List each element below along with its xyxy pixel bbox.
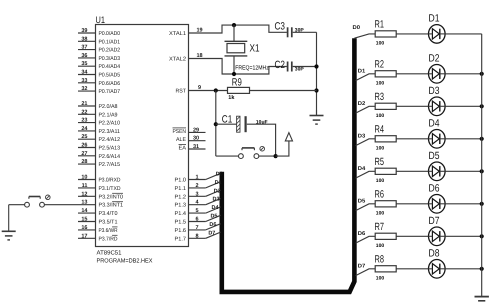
junction rail row 4 [480, 137, 484, 141]
svg-text:14: 14 [81, 208, 88, 214]
svg-text:10: 10 [81, 175, 87, 181]
net label D4 (right) [358, 166, 367, 172]
junction button/VCC node [274, 154, 278, 158]
svg-text:FREQ=12MHz: FREQ=12MHz [235, 65, 268, 72]
svg-text:100: 100 [376, 113, 385, 119]
svg-text:D4: D4 [429, 118, 440, 130]
wire bus to R6 [356, 204, 376, 211]
svg-text:U1: U1 [96, 15, 106, 26]
D8 reference label [429, 248, 440, 260]
svg-text:P1.2: P1.2 [175, 194, 187, 200]
svg-text:21: 21 [81, 101, 87, 107]
svg-text:P0.7/AD7: P0.7/AD7 [99, 89, 121, 95]
LED D6 [429, 195, 446, 214]
wire D1 to cathode rail [445, 33, 482, 35]
U1 pin 15 (P3.5/T1) [78, 217, 118, 226]
svg-text:17: 17 [81, 233, 87, 239]
LED D1 [429, 25, 446, 44]
U1 pin 13 (P3.3/INT1) [81, 200, 123, 209]
svg-text:11: 11 [82, 183, 88, 189]
wire R8 to D8 [396, 268, 428, 270]
U1 pin 24 (P2.3/A11) [78, 126, 120, 135]
svg-text:D7: D7 [429, 215, 440, 227]
svg-text:D6: D6 [429, 183, 440, 195]
resistor R4 [375, 136, 396, 142]
C3 value 30P [295, 28, 305, 34]
wire R4 to D4 [396, 138, 428, 140]
svg-text:D0: D0 [216, 172, 223, 178]
U1 pin 39 (P0.0/AD0) [78, 28, 120, 37]
svg-text:R1: R1 [375, 19, 385, 31]
svg-text:37: 37 [81, 45, 87, 51]
svg-text:D8: D8 [429, 248, 440, 260]
svg-text:C2: C2 [275, 59, 286, 71]
svg-text:P0.5/AD5: P0.5/AD5 [99, 73, 121, 79]
junction rail row 7 [480, 234, 484, 238]
svg-text:PROGRAM=DB2.HEX: PROGRAM=DB2.HEX [97, 258, 153, 265]
svg-text:100: 100 [376, 145, 385, 151]
wire to C1 [216, 123, 237, 125]
svg-text:D3: D3 [213, 197, 220, 203]
net label D2 (right) [358, 101, 366, 107]
R8 reference label [375, 254, 385, 266]
U1 pin 38 (P0.1/AD1) [78, 36, 120, 45]
wire oscillator ground rail [316, 32, 318, 115]
svg-text:P1.4: P1.4 [175, 211, 187, 217]
svg-text:D7: D7 [358, 264, 366, 270]
U1 pin 18 (XTAL2) [169, 53, 203, 63]
U1 property PROGRAM=DB2.HEX [97, 258, 153, 265]
svg-text:P2.4/A12: P2.4/A12 [99, 137, 121, 143]
C2 reference label [275, 59, 286, 71]
svg-text:D2: D2 [214, 188, 221, 194]
svg-text:16: 16 [81, 225, 87, 231]
U1 pin 10 (P3.0/RXD) [78, 175, 121, 184]
U1 pin 17 (P3.7/RD) [78, 233, 118, 242]
U1 pin 4 (P1.3) [175, 200, 206, 209]
U1 pin 14 (P3.4/T0) [78, 208, 118, 217]
svg-text:15: 15 [81, 217, 87, 223]
svg-text:8: 8 [196, 233, 199, 239]
svg-text:P3.6/WR: P3.6/WR [99, 228, 118, 234]
resistor R7 [375, 233, 396, 239]
svg-text:P0.3/AD3: P0.3/AD3 [99, 56, 121, 62]
U1 pin 3 (P1.2) [175, 191, 206, 200]
wire bus to R4 [356, 139, 376, 146]
LED D2 [429, 65, 446, 84]
wire P1.0 to bus [206, 173, 221, 179]
svg-text:P2.5/A13: P2.5/A13 [99, 146, 121, 152]
U1 pin 35 (P0.4/AD4) [78, 61, 120, 70]
resistor R9 [228, 87, 250, 93]
svg-text:D5: D5 [358, 199, 366, 205]
net label D6 (right) [358, 231, 366, 237]
svg-text:R5: R5 [375, 156, 385, 168]
LED D5 [429, 162, 446, 181]
U1 pin 32 (P0.7/AD7) [78, 86, 120, 95]
C1 reference label [222, 114, 233, 126]
wire D2 to cathode rail [445, 73, 482, 75]
svg-text:29: 29 [193, 127, 199, 133]
U1 pin 30 (ALE) [176, 136, 206, 144]
R9 reference label [232, 77, 242, 89]
svg-text:39: 39 [81, 28, 87, 34]
svg-text:P2.1/A9: P2.1/A9 [99, 112, 118, 118]
wire R5 to D5 [396, 170, 428, 172]
net label D7 (left) [208, 230, 215, 236]
capacitor C3 [288, 27, 292, 37]
capacitor C1 (polarized) [237, 116, 246, 132]
svg-text:100: 100 [376, 178, 385, 184]
svg-text:P0.1/AD1: P0.1/AD1 [99, 39, 121, 45]
ground (oscillator rail) [310, 110, 324, 124]
junction rail row 3 [480, 104, 484, 108]
wire R1 to D1 [396, 33, 428, 35]
wire P1.1 to bus [206, 182, 221, 188]
svg-text:30P: 30P [295, 66, 305, 72]
wire to VCC [276, 141, 289, 156]
R9 value 1k [228, 95, 235, 101]
wire RST node down to button [215, 91, 217, 157]
resistor R6 [375, 201, 396, 207]
ground (INT1 button) [2, 205, 16, 240]
wire R9 to rail [250, 90, 317, 92]
svg-text:12: 12 [81, 191, 87, 197]
svg-text:P2.2/A10: P2.2/A10 [99, 121, 121, 127]
wire button to U1 pin 13 [44, 204, 95, 206]
U1 pin 29 (PSEN) [173, 127, 206, 135]
svg-text:D1: D1 [429, 13, 440, 25]
LED D7 [429, 227, 446, 246]
crystal X1 [225, 41, 248, 56]
resistor R3 [375, 103, 396, 109]
net label D5 (right) [358, 199, 366, 205]
net label D1 (left) [215, 180, 222, 186]
op-amp U1 body (AT89C51 microcontroller) [96, 25, 189, 247]
svg-text:R2: R2 [375, 59, 385, 71]
D4 reference label [429, 118, 440, 130]
svg-text:P3.3/INT1: P3.3/INT1 [99, 203, 124, 209]
svg-text:P1.0: P1.0 [175, 178, 187, 184]
svg-text:P1.7: P1.7 [175, 236, 187, 242]
R5 reference label [375, 156, 385, 168]
svg-text:22: 22 [81, 109, 87, 115]
R6 value 100 [376, 210, 385, 216]
svg-text:P2.7/A15: P2.7/A15 [99, 162, 121, 168]
net label D4 (left) [212, 205, 220, 211]
R1 reference label [375, 19, 385, 31]
wire ground to button [9, 204, 25, 206]
wire R2 to D2 [396, 73, 428, 75]
svg-text:28: 28 [81, 159, 87, 165]
wire C3 to rail [293, 31, 317, 33]
net label D2 (left) [214, 188, 221, 194]
U1 pin 16 (P3.6/WR) [78, 225, 118, 234]
X1 reference label [250, 43, 260, 55]
svg-text:100: 100 [376, 243, 385, 249]
U1 pin 11 (P3.1/TXD) [78, 183, 121, 192]
resistor R8 [375, 266, 396, 272]
junction R9/rail [314, 88, 318, 92]
wire R7 to D7 [396, 235, 428, 237]
junction crystal bottom node [232, 72, 236, 76]
svg-text:EA: EA [179, 146, 187, 152]
D7 reference label [429, 215, 440, 227]
U1 pin 1 (P1.0) [175, 175, 206, 184]
R4 value 100 [376, 145, 385, 151]
net label D7 (right) [358, 264, 366, 270]
net label D0 (right) [353, 25, 361, 31]
svg-text:C1: C1 [222, 114, 233, 126]
ground (cathode rail) [475, 297, 489, 301]
svg-text:100: 100 [376, 210, 385, 216]
svg-text:7: 7 [196, 225, 199, 231]
wire bus to R8 [356, 269, 376, 276]
svg-text:31: 31 [193, 144, 199, 150]
wire bus to R1 [354, 34, 375, 38]
net label D3 (right) [358, 134, 366, 140]
net label D1 (right) [358, 69, 366, 75]
svg-text:D7: D7 [208, 230, 215, 236]
wire D7 to cathode rail [445, 235, 482, 237]
net label D5 (left) [210, 214, 217, 220]
wire bus to R3 [356, 106, 376, 113]
svg-text:100: 100 [376, 275, 385, 281]
svg-text:P3.0/RXD: P3.0/RXD [99, 178, 121, 184]
svg-text:P3.4/T0: P3.4/T0 [99, 211, 118, 217]
wire D8 to cathode rail [445, 268, 482, 270]
U1 pin 19 (XTAL1) [169, 28, 203, 38]
wire P1.4 to bus [206, 207, 221, 213]
junction rail row 8 [480, 267, 484, 271]
X1 value FREQ=12MHz [235, 65, 268, 72]
svg-text:C3: C3 [275, 21, 286, 33]
power VCC arrow [285, 133, 292, 141]
wire R6 to D6 [396, 203, 428, 205]
D6 reference label [429, 183, 440, 195]
svg-text:P2.3/A11: P2.3/A11 [99, 129, 121, 135]
svg-text:2: 2 [196, 183, 199, 189]
wire bus to R2 [356, 74, 376, 81]
svg-text:D2: D2 [429, 53, 440, 65]
D1 reference label [429, 13, 440, 25]
junction C1 left node [214, 122, 218, 126]
R4 reference label [375, 124, 385, 136]
svg-text:P3.5/T1: P3.5/T1 [99, 220, 118, 226]
R6 reference label [375, 189, 385, 201]
wire P1.5 to bus [206, 215, 221, 221]
U1 pin 9 (RST) [176, 85, 202, 95]
wire R3 to D3 [396, 105, 428, 107]
svg-text:100: 100 [376, 41, 385, 47]
junction rail row 2 [480, 72, 484, 76]
svg-text:P1.3: P1.3 [175, 203, 187, 209]
R3 reference label [375, 91, 385, 103]
U1 pin 21 (P2.0/A8) [78, 101, 118, 110]
svg-text:R9: R9 [232, 77, 242, 89]
wire XTAL2 to crystal/C2 net [189, 59, 287, 75]
svg-text:P0.6/AD6: P0.6/AD6 [99, 81, 121, 87]
svg-text:P1.5: P1.5 [175, 220, 187, 226]
svg-text:D6: D6 [209, 222, 216, 228]
svg-text:26: 26 [81, 143, 87, 149]
U1 pin 33 (P0.6/AD6) [78, 78, 120, 87]
wire P1.3 to bus [206, 199, 221, 205]
svg-text:32: 32 [81, 86, 87, 92]
svg-text:P1.1: P1.1 [175, 186, 187, 192]
U1 pin 37 (P0.2/AD2) [78, 45, 120, 54]
R5 value 100 [376, 178, 385, 184]
R2 value 100 [376, 80, 385, 86]
svg-text:1k: 1k [228, 95, 235, 101]
svg-text:33: 33 [81, 78, 87, 84]
svg-text:3: 3 [196, 191, 199, 197]
junction C2/rail [314, 64, 318, 68]
svg-text:5: 5 [196, 208, 199, 214]
svg-text:D1: D1 [215, 180, 222, 186]
svg-text:R8: R8 [375, 254, 385, 266]
wire RST to R9 [189, 90, 228, 92]
U1 pin 34 (P0.5/AD5) [78, 70, 120, 79]
svg-text:P0.0/AD0: P0.0/AD0 [99, 31, 121, 37]
U1 pin 26 (P2.5/A13) [78, 143, 120, 152]
svg-text:D5: D5 [210, 214, 217, 220]
U1 pin 7 (P1.6) [175, 225, 206, 234]
svg-text:D3: D3 [358, 134, 366, 140]
svg-text:RST: RST [176, 89, 187, 95]
svg-text:D0: D0 [353, 25, 361, 31]
wire cathode rail [481, 34, 483, 297]
svg-text:P0.4/AD4: P0.4/AD4 [99, 64, 121, 70]
wire P1.7 to bus [206, 232, 221, 238]
svg-text:100: 100 [376, 80, 385, 86]
svg-text:AT89C51: AT89C51 [97, 250, 123, 257]
svg-text:35: 35 [81, 61, 87, 67]
resistor R5 [375, 168, 396, 174]
U1 pin 31 (EA) [179, 144, 206, 152]
D2 reference label [429, 53, 440, 65]
wire D6 to cathode rail [445, 203, 482, 205]
svg-text:D6: D6 [358, 231, 366, 237]
svg-text:P3.7/RD: P3.7/RD [99, 236, 118, 242]
svg-text:38: 38 [81, 36, 87, 42]
svg-text:P3.2/INT0: P3.2/INT0 [99, 194, 124, 200]
wire bus to R7 [356, 236, 376, 243]
junction rail row 6 [480, 202, 484, 206]
push button RESET [216, 146, 276, 158]
wire D3 to cathode rail [445, 105, 482, 107]
svg-text:ALE: ALE [176, 137, 186, 143]
svg-text:30: 30 [193, 136, 199, 142]
U1 pin 2 (P1.1) [175, 183, 206, 192]
U1 pin 5 (P1.4) [175, 208, 206, 217]
U1 pin 8 (P1.7) [175, 233, 206, 242]
svg-text:25: 25 [81, 134, 87, 140]
U1 pin 6 (P1.5) [175, 217, 206, 226]
svg-text:P1.6: P1.6 [175, 228, 187, 234]
wire P1.2 to bus [206, 190, 221, 196]
svg-text:D4: D4 [212, 205, 220, 211]
C3 reference label [275, 21, 286, 33]
push button K1 (INT1) [25, 195, 50, 207]
U1 pin 27 (P2.6/A14) [78, 151, 120, 160]
U1 pin 28 (P2.7/A15) [78, 159, 120, 168]
U1 pin 23 (P2.2/A10) [78, 118, 120, 127]
svg-text:R4: R4 [375, 124, 385, 136]
LED D3 [429, 97, 446, 116]
svg-text:P2.0/A8: P2.0/A8 [99, 104, 118, 110]
svg-text:24: 24 [81, 126, 88, 132]
junction crystal top node [232, 23, 236, 27]
C2 value 30P [295, 66, 305, 72]
bus wire (P1 to LEDs) [222, 38, 355, 292]
wire C2 to rail [293, 66, 317, 68]
resistor R2 [375, 71, 396, 77]
wire crystal top lead [233, 25, 235, 41]
svg-text:1: 1 [196, 175, 199, 181]
wire P1.6 to bus [206, 224, 221, 230]
svg-text:P3.1/TXD: P3.1/TXD [99, 186, 121, 192]
U1 part value AT89C51 [97, 250, 123, 257]
capacitor C2 [288, 62, 292, 72]
svg-text:R7: R7 [375, 221, 385, 233]
svg-text:XTAL2: XTAL2 [169, 57, 186, 63]
net label D0 (left) [216, 172, 223, 178]
svg-text:6: 6 [196, 217, 199, 223]
svg-text:D2: D2 [358, 101, 366, 107]
svg-text:D4: D4 [358, 166, 367, 172]
resistor R1 [375, 31, 396, 37]
svg-text:X1: X1 [250, 43, 260, 55]
svg-text:34: 34 [81, 70, 88, 76]
svg-text:23: 23 [81, 118, 87, 124]
R7 value 100 [376, 243, 385, 249]
svg-text:XTAL1: XTAL1 [169, 31, 186, 37]
U1 pin 36 (P0.3/AD3) [78, 53, 120, 62]
D3 reference label [429, 85, 440, 97]
net label D3 (left) [213, 197, 220, 203]
LED D8 [429, 260, 446, 279]
wire D4 to cathode rail [445, 138, 482, 140]
svg-text:P2.6/A14: P2.6/A14 [99, 154, 121, 160]
U1 pin 12 (P3.2/INT0) [78, 191, 123, 200]
D5 reference label [429, 150, 440, 162]
wire XTAL1 to crystal/C3 net [189, 25, 287, 33]
wire C1 right to button node [247, 124, 276, 156]
svg-text:36: 36 [81, 53, 87, 59]
R3 value 100 [376, 113, 385, 119]
R7 reference label [375, 221, 385, 233]
U1 pin 25 (P2.4/A12) [78, 134, 120, 143]
svg-text:PSEN: PSEN [173, 129, 187, 135]
svg-text:D5: D5 [429, 150, 440, 162]
U1 reference label [96, 15, 106, 26]
wire bus to R5 [356, 171, 376, 178]
LED D4 [429, 130, 446, 149]
R8 value 100 [376, 275, 385, 281]
svg-text:D3: D3 [429, 85, 440, 97]
wire crystal bottom lead [233, 56, 235, 74]
svg-text:P0.2/AD2: P0.2/AD2 [99, 48, 121, 54]
wire D5 to cathode rail [445, 170, 482, 172]
svg-text:R3: R3 [375, 91, 385, 103]
junction rail row 5 [480, 169, 484, 173]
U1 pin 22 (P2.1/A9) [78, 109, 118, 118]
svg-text:D1: D1 [358, 69, 366, 75]
junction RST node [214, 88, 218, 92]
net label D6 (left) [209, 222, 216, 228]
R1 value 100 [376, 41, 385, 47]
